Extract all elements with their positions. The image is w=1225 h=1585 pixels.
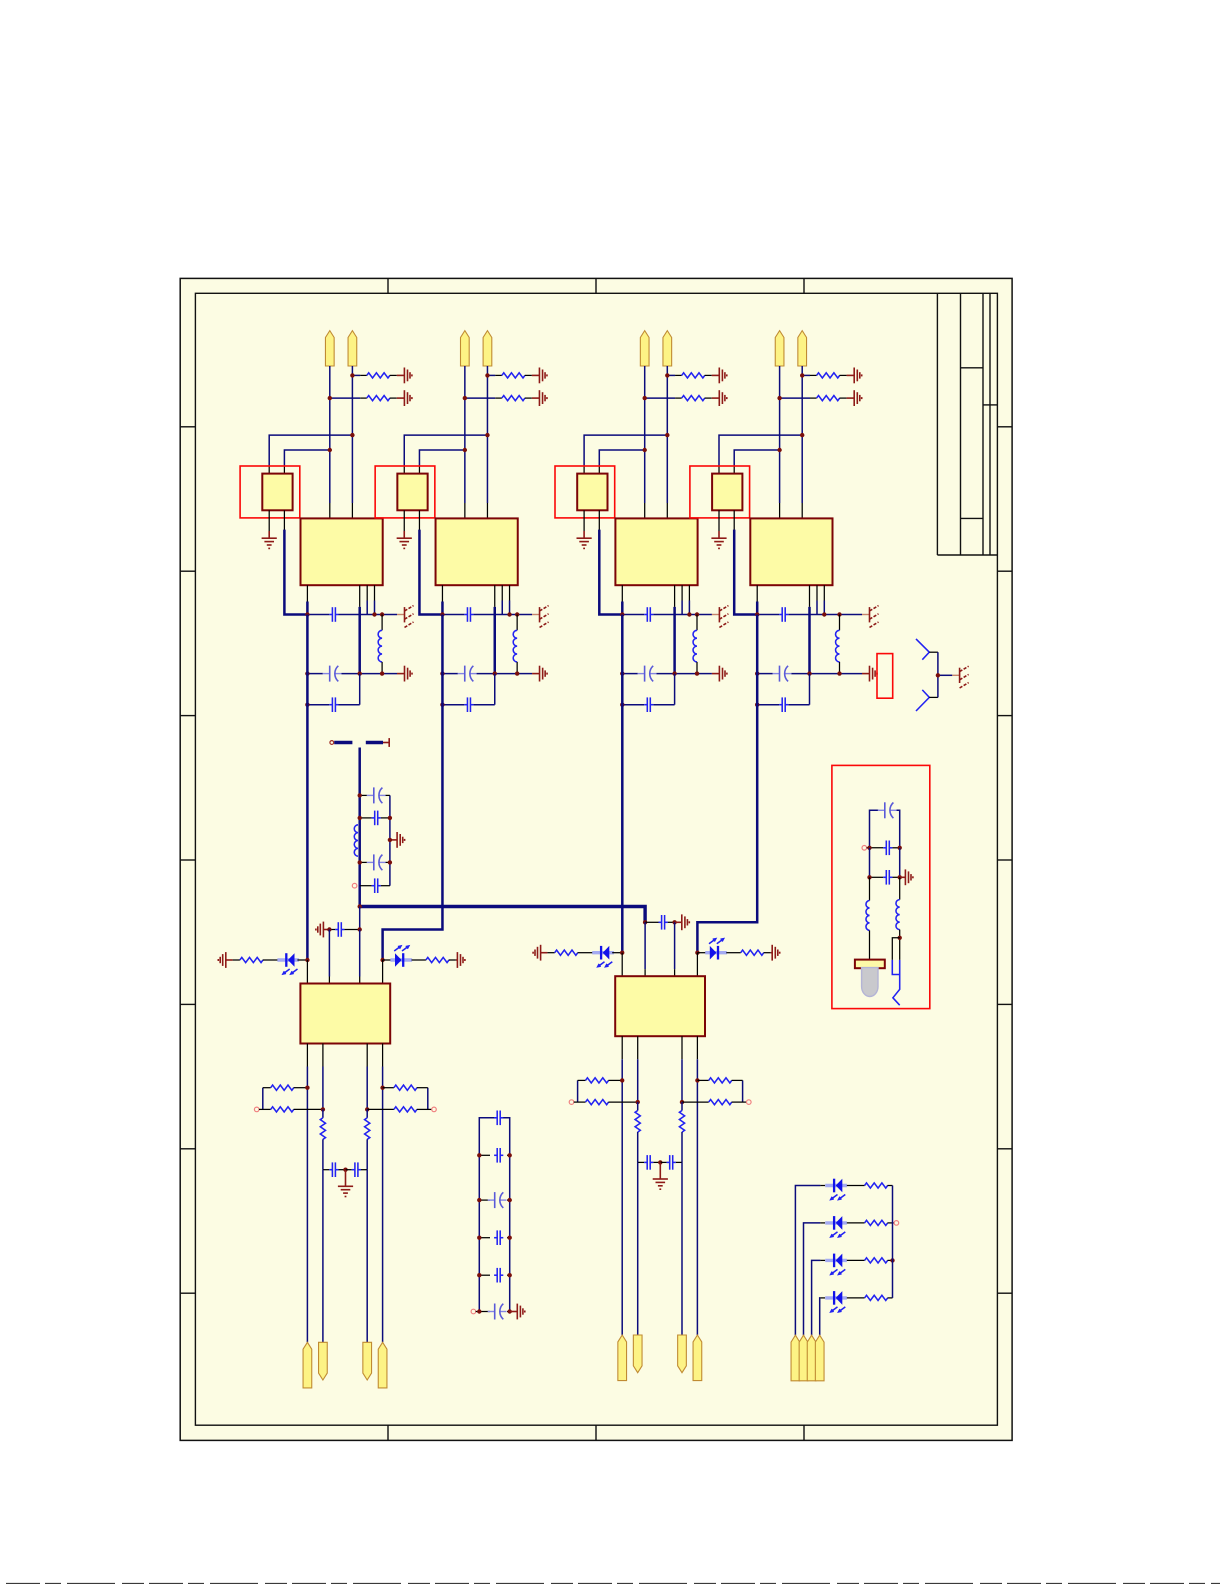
- capacitor CS3 (polarized): [479, 1199, 490, 1201]
- port J6 pin3: [678, 1335, 687, 1373]
- connector P2 pin 1 (port): [461, 331, 470, 366]
- wire pin1 ch3: [644, 366, 646, 503]
- capacitor C4a: [779, 614, 782, 616]
- IC U5: [300, 984, 390, 1044]
- wire row2-row3 ch3: [674, 674, 676, 705]
- LED D5b: [390, 958, 412, 961]
- capacitor CT3 (polarized): [367, 861, 374, 863]
- resistor R4b row: [780, 397, 810, 399]
- wire pin2 ch2: [486, 366, 488, 503]
- sensor module boundary (red box): [832, 765, 930, 1008]
- node tank row A: [360, 794, 367, 796]
- crystal pins ch3: [583, 510, 585, 531]
- wire U6 outer pins down: [621, 1059, 623, 1335]
- LED DA2: [825, 1221, 847, 1224]
- connector P2 pin 2 (port): [483, 331, 492, 366]
- ground GT4b (bar ground): [853, 390, 855, 406]
- IC U4: [750, 518, 832, 585]
- wire LED array row 1: [795, 1186, 820, 1336]
- resistor R5d: [254, 1107, 259, 1112]
- wire U5 pin4 stub: [382, 960, 384, 984]
- IC U1 bottom pin stubs: [306, 585, 308, 601]
- thick wire IC pin2 ch2: [494, 607, 497, 674]
- node row2 ch2: [442, 673, 457, 675]
- inductor L1: [381, 615, 383, 631]
- wire pin1 ch4: [779, 366, 781, 503]
- thick wire ch3 to U6: [621, 615, 624, 953]
- thick supply wire ch2: [419, 530, 442, 615]
- ground GT1a (bar ground): [403, 368, 405, 384]
- capacitor CS2: [479, 1154, 490, 1156]
- resistor R6e: [695, 1078, 699, 1082]
- node row2 ch3: [622, 673, 637, 675]
- component box R-cal (red outline): [877, 654, 893, 699]
- sensor inductor left: [869, 877, 871, 900]
- transducer BZ1 wires: [929, 651, 938, 653]
- IC U3: [615, 518, 697, 585]
- resistor vertical U6 left: [637, 1102, 639, 1110]
- thick wire IC pin2 ch3: [673, 607, 676, 674]
- LED D5a: [277, 958, 299, 961]
- connector P3 pin 2 (port): [663, 331, 672, 366]
- thick supply wire ch4: [734, 530, 757, 615]
- thick wire ch2 jog to U5 right: [383, 615, 443, 961]
- net crossover A ch3: [583, 467, 585, 474]
- IC U2: [436, 518, 518, 585]
- ground chassis ch4 row1: [869, 607, 871, 622]
- ground GE3 (earth): [583, 531, 585, 538]
- capacitor C3c: [644, 704, 647, 706]
- inductor LT1: [354, 825, 358, 856]
- capacitor C1c: [329, 704, 332, 706]
- ground GT-tank (bar ground): [390, 839, 397, 841]
- capacitor C6g: [638, 1161, 644, 1163]
- wire pin2 ch4: [801, 366, 803, 503]
- sensor lamp cap: [855, 960, 885, 969]
- net crossover A ch2: [403, 467, 405, 474]
- capacitor C5h: [346, 1169, 352, 1171]
- net crossover A ch1: [268, 467, 270, 474]
- wire LED array row 4: [819, 1298, 822, 1335]
- inductor L2: [516, 615, 518, 631]
- ground bar G6t: [675, 921, 682, 923]
- wire U5 inner pins down: [322, 1170, 324, 1343]
- wire LED to U6 pin1 + junction: [612, 952, 622, 954]
- IC U1: [301, 518, 383, 585]
- LED DA4: [825, 1296, 847, 1299]
- capacitor C2b (polarized): [458, 673, 465, 675]
- resistor R2b row: [465, 397, 495, 399]
- ground chassis ch3 row1: [718, 607, 720, 622]
- connector P1 pin 1 (port): [325, 331, 334, 366]
- port J6 pin4: [693, 1335, 702, 1381]
- sensor top loop with capacitor (polarized): [870, 810, 879, 848]
- resistor R6c: [578, 1079, 586, 1081]
- resistor R3a row: [667, 374, 675, 376]
- ground GE6 (earth): [659, 1162, 661, 1179]
- wire U6 inner pins down: [637, 1162, 639, 1335]
- capacitor C5g: [323, 1169, 329, 1171]
- inductor L3: [696, 615, 698, 631]
- resistor R6d: [569, 1100, 574, 1105]
- crystal Y4: [712, 474, 742, 511]
- thick wire IC pin2 ch1: [358, 607, 361, 674]
- LED DA1: [825, 1184, 847, 1187]
- jumper switch S1: [330, 741, 334, 745]
- wire junction to LED D6b: [695, 951, 699, 955]
- resistor R6a: [547, 952, 554, 954]
- capacitor CT2: [372, 817, 375, 819]
- sensor rails mid: [869, 848, 871, 878]
- wire U5 pin1 stub: [306, 960, 308, 984]
- net crossover A ch4: [718, 467, 720, 474]
- wire LED array row 3: [812, 1260, 821, 1335]
- wire U6 pin1 stub: [621, 953, 623, 977]
- resistor R3b row: [645, 397, 675, 399]
- crystal pins ch4: [718, 510, 720, 531]
- LED D6b: [705, 951, 727, 954]
- crystal Y3: [577, 474, 607, 511]
- IC U4 bottom pin stubs: [756, 585, 758, 601]
- wire LED to U5 pin1 + junction: [297, 959, 307, 961]
- node row3 ch2: [442, 704, 464, 706]
- crystal pins ch1: [268, 510, 270, 531]
- thick wire ch1 to U5: [306, 615, 309, 961]
- ground GT3a (bar ground): [718, 368, 720, 384]
- resistor RA3: [847, 1259, 865, 1261]
- capacitor CT1 (polarized): [367, 794, 374, 796]
- wire U6 inner pins to resistor row: [637, 1059, 639, 1102]
- node row3 ch1: [307, 704, 329, 706]
- crystal Y1: [262, 474, 292, 511]
- net crossover B ch2: [418, 467, 420, 474]
- net crossover B ch3: [598, 467, 600, 474]
- capacitor C1b (polarized): [323, 673, 330, 675]
- resistor R5a: [233, 959, 240, 961]
- resistor R6f: [680, 1100, 684, 1104]
- ground GT2b (bar ground): [538, 390, 540, 406]
- ground GE4 (earth): [718, 531, 720, 538]
- crystal boundary box ch1: [240, 466, 300, 518]
- ground bar G5t: [315, 929, 317, 931]
- net crossover B ch1: [283, 467, 285, 474]
- capacitor stack rails: [479, 1118, 496, 1312]
- capacitor CS5: [479, 1274, 490, 1276]
- wire thick pin ch1: [306, 602, 309, 616]
- sensor inductor right: [899, 877, 901, 899]
- IC U6: [615, 976, 705, 1036]
- switch S1 end bar: [383, 742, 389, 744]
- ground GE2 (earth): [403, 531, 405, 538]
- capacitor C2c: [464, 704, 467, 706]
- IC U3 bottom pin stubs: [621, 585, 623, 601]
- resistor R2a row: [487, 374, 495, 376]
- resistor vertical U5 right: [366, 1109, 368, 1117]
- transducer BZ1 chevrons: [916, 639, 929, 660]
- port JA (4-pin block): [791, 1335, 800, 1381]
- ground GT3c (bar ground): [718, 666, 720, 682]
- thick wire ch4 jog to U6 right: [697, 615, 757, 953]
- ground GT4c (bar ground): [869, 666, 871, 682]
- node row1 ch3: [681, 601, 683, 615]
- thick wire tank rail: [358, 748, 361, 907]
- border zone ticks: [180, 426, 195, 428]
- ground GT4a (bar ground): [853, 368, 855, 384]
- wire junction to LED D5b: [380, 958, 384, 962]
- ground GE5 (earth): [345, 1170, 347, 1187]
- capacitor C1a: [329, 614, 332, 616]
- crystal boundary box ch3: [555, 466, 615, 518]
- wire LED array row 2: [804, 1223, 821, 1335]
- capacitor C5t: [329, 929, 335, 931]
- crystal pins ch2: [403, 510, 405, 531]
- resistor R4a row: [802, 374, 810, 376]
- resistor R1b row: [330, 397, 360, 399]
- ground GE1 (earth): [268, 531, 270, 538]
- node row3 ch4: [757, 704, 779, 706]
- resistor R5b: [412, 959, 426, 961]
- bottom page edge dashed line: [6, 1582, 1220, 1584]
- port J6 pin1: [618, 1335, 627, 1381]
- sensor row3 capacitor + ground: [870, 876, 884, 878]
- LED array right rail: [892, 1186, 894, 1298]
- node row1 ch1: [366, 601, 368, 615]
- wire pin1 ch2: [464, 366, 466, 503]
- port J5 pin4: [378, 1342, 387, 1388]
- sensor contact bracket: [898, 936, 902, 940]
- wire U5 inner pins to resistor row: [322, 1067, 324, 1110]
- wire resistor-pair right connector U6: [742, 1080, 744, 1102]
- wire pin2 ch1: [351, 366, 353, 503]
- sensor contact hook: [893, 960, 900, 1005]
- capacitor C3b (polarized): [638, 673, 645, 675]
- sensor lamp bulb: [862, 968, 878, 997]
- capacitor CS4: [479, 1237, 490, 1239]
- capacitor CS1: [494, 1117, 497, 1119]
- resistor RA1: [847, 1185, 865, 1187]
- port J5 pin1: [303, 1342, 312, 1388]
- LED D6a: [592, 951, 614, 954]
- crystal boundary box ch2: [375, 466, 435, 518]
- wire thick pin ch3: [621, 602, 624, 616]
- wire row2-row3 ch1: [359, 674, 361, 705]
- wire thick pin ch2: [441, 602, 444, 616]
- crystal boundary box ch4: [690, 466, 750, 518]
- ground bar G6a: [532, 952, 534, 954]
- node row1 ch4: [816, 601, 818, 615]
- thick supply wire ch3: [599, 530, 622, 615]
- wire row2-row3 ch4: [809, 674, 811, 705]
- crystal Y2: [397, 474, 427, 511]
- wire resistor-pair right connector U5: [427, 1088, 429, 1110]
- node row2 ch1: [307, 673, 322, 675]
- wire pin2 ch3: [666, 366, 668, 503]
- node tank row B: [360, 817, 372, 819]
- resistor RA2: [847, 1222, 865, 1224]
- wire bus to U5 pin3: [359, 907, 361, 930]
- ground GT2a (bar ground): [538, 368, 540, 384]
- wire resistor-pair left connector U5: [262, 1088, 264, 1110]
- connector P4 pin 2 (port): [798, 331, 807, 366]
- ground GT3b (bar ground): [718, 390, 720, 406]
- connector P3 pin 1 (port): [640, 331, 649, 366]
- inner border frame: [195, 293, 997, 1425]
- ground chassis ch1 row1: [404, 607, 406, 622]
- resistor vertical U6 right: [681, 1102, 683, 1110]
- U6 bottom pin stubs: [621, 1036, 623, 1059]
- wire resistor-pair left connector U6: [577, 1080, 579, 1102]
- net crossover B ch4: [733, 467, 735, 474]
- ground bar G5a: [217, 959, 219, 961]
- capacitor C3a: [644, 614, 647, 616]
- capacitor C2a: [464, 614, 467, 616]
- resistor R6b: [726, 952, 740, 954]
- resistor vertical U5 left: [322, 1109, 324, 1117]
- port J5 pin3: [363, 1342, 372, 1380]
- wire caprow to U5 pins: [328, 930, 330, 977]
- resistor R1a row: [352, 374, 360, 376]
- capacitor C4b (polarized): [773, 673, 780, 675]
- thick wire IC pin2 ch4: [808, 607, 811, 674]
- ground GT6b (bar ground): [771, 945, 773, 961]
- node tank row D: [352, 883, 357, 888]
- sensor row2 capacitor: [862, 846, 867, 851]
- resistor R5c: [263, 1087, 271, 1089]
- node row1 ch2: [501, 601, 503, 615]
- wire U5 outer pins down: [306, 1067, 308, 1343]
- node row2 ch4: [757, 673, 772, 675]
- ground GT-stack (bar ground): [516, 1304, 518, 1320]
- port J5 pin2: [319, 1342, 328, 1380]
- ground GT1b (bar ground): [403, 390, 405, 406]
- capacitor C6t: [643, 920, 647, 924]
- port J6 pin2: [633, 1335, 642, 1373]
- thick supply wire ch1: [284, 530, 307, 615]
- ground GT2c (bar ground): [539, 666, 541, 682]
- LED DA3: [825, 1259, 847, 1262]
- connector P1 pin 2 (port): [348, 331, 357, 366]
- ground GT5b (bar ground): [456, 952, 458, 968]
- main bus wire: [360, 907, 645, 923]
- IC U2 bottom pin stubs: [441, 585, 443, 601]
- wire pin1 ch1: [329, 366, 331, 503]
- resistor RA4: [847, 1297, 865, 1299]
- capacitor CS6 (polarized): [471, 1309, 476, 1314]
- title block: [936, 293, 938, 555]
- capacitor C4c: [779, 704, 782, 706]
- resistor R5e: [380, 1086, 384, 1090]
- capacitor CT4: [372, 885, 375, 887]
- ground GT1c (bar ground): [404, 666, 406, 682]
- inductor L4: [839, 615, 841, 631]
- capacitor C6h: [660, 1161, 666, 1163]
- ground chassis BZ1: [959, 668, 961, 683]
- node row3 ch3: [622, 704, 644, 706]
- wire caprow to U6 pins: [644, 922, 646, 969]
- U5 bottom pin stubs: [306, 1044, 308, 1067]
- wire U6 pin4 stub: [696, 953, 698, 977]
- tank right rail: [389, 795, 391, 885]
- wire thick pin ch4: [756, 602, 759, 616]
- resistor R5f: [365, 1107, 369, 1111]
- node tank row C: [360, 861, 367, 863]
- wire row2-row3 ch2: [494, 674, 496, 705]
- ground chassis ch2 row1: [539, 607, 541, 622]
- connector P4 pin 1 (port): [775, 331, 784, 366]
